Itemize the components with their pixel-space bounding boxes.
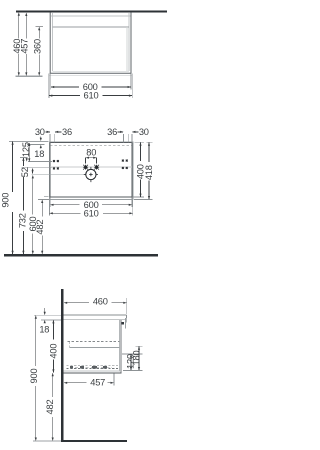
cabinet plan outline <box>50 143 132 198</box>
top dim ext lines right <box>123 134 125 143</box>
dim 360 top tick <box>36 26 43 28</box>
dim 457 side <box>64 382 87 384</box>
basin slab outline <box>49 142 132 200</box>
dim 600 plan-bottom <box>51 204 80 206</box>
inner bottom line <box>52 70 129 72</box>
svg-text:460: 460 <box>93 297 108 307</box>
svg-text:400: 400 <box>48 344 58 359</box>
hidden basin dashed <box>68 341 120 343</box>
dim 30 right <box>132 131 138 133</box>
dim 400 side <box>52 320 54 339</box>
door right gap line <box>126 27 128 71</box>
dim 460 side <box>64 302 89 304</box>
handle <box>122 322 124 325</box>
dim 400 plan <box>140 143 142 161</box>
floor line side <box>61 440 127 442</box>
inner light left line <box>51 13 53 71</box>
plan bottom ext lines <box>48 200 50 216</box>
svg-text:80: 80 <box>86 148 96 158</box>
ext lines below front view <box>48 74 50 98</box>
row ticks left <box>28 161 52 163</box>
dashed wall line <box>50 145 132 147</box>
dim 36 left <box>55 131 62 133</box>
dim 732 plan <box>20 156 28 158</box>
svg-text:30: 30 <box>35 127 45 137</box>
svg-text:900: 900 <box>29 369 39 384</box>
dim 180 side <box>138 347 140 370</box>
dim 482 side <box>52 373 54 397</box>
dim 460 side ext <box>126 298 128 314</box>
dashed-line tick <box>27 144 45 146</box>
right dim ticks plan <box>135 141 145 143</box>
inner light right line <box>128 13 130 71</box>
svg-text:36: 36 <box>107 127 117 137</box>
dim 418 plan <box>148 143 150 162</box>
dim 18 side <box>44 308 46 312</box>
plan reference tick at basin back level <box>9 140 49 142</box>
dim 482 plan <box>41 200 43 217</box>
interior shelf line <box>70 347 120 349</box>
tap fixing star left <box>83 164 89 170</box>
dim 457 ext <box>113 374 115 386</box>
dim 52 plan <box>26 157 28 158</box>
svg-text:900: 900 <box>1 193 11 208</box>
svg-text:360: 360 <box>32 39 42 54</box>
countertop front nose <box>125 315 127 321</box>
drain circle <box>86 169 96 179</box>
svg-text:18: 18 <box>34 149 44 159</box>
fixing hole marks left <box>53 160 59 169</box>
top dim ext lines left <box>49 134 51 143</box>
extra up arrow at row2 <box>31 168 33 171</box>
side ticks 18 <box>34 314 61 316</box>
svg-text:418: 418 <box>144 165 154 180</box>
svg-text:457: 457 <box>90 378 105 388</box>
svg-text:18: 18 <box>39 324 49 334</box>
dim 18 plan <box>40 137 42 139</box>
side right ticks <box>136 345 143 347</box>
dim 457 line <box>25 13 27 39</box>
countertop side top <box>63 314 126 316</box>
dim 125 plan <box>28 143 30 162</box>
door top edge <box>52 26 129 28</box>
dim 900 side <box>35 316 37 366</box>
svg-text:180: 180 <box>131 351 141 366</box>
box bottom small tick left <box>44 195 49 197</box>
dim 120 side <box>130 354 132 370</box>
svg-text:482: 482 <box>35 220 45 235</box>
svg-text:610: 610 <box>84 208 99 218</box>
cabinet box outline <box>50 12 131 73</box>
washbasin bottom reveal line <box>49 74 132 76</box>
cabinet top line side <box>63 319 125 321</box>
svg-text:482: 482 <box>45 400 55 415</box>
siphon hidden dashes <box>67 365 119 367</box>
svg-text:457: 457 <box>20 39 30 54</box>
dim 360 line <box>38 27 40 38</box>
drain centre reference line <box>32 174 86 176</box>
dim 460 line <box>18 13 20 39</box>
svg-text:36: 36 <box>62 127 72 137</box>
dim 610 plan-bottom <box>50 212 81 214</box>
dim 600 (front) line <box>51 86 79 88</box>
ground tick under front view <box>16 75 43 77</box>
svg-text:610: 610 <box>84 91 99 101</box>
countertop underside line <box>51 15 131 17</box>
basin apron line <box>125 318 127 329</box>
cabinet bottom side <box>63 372 121 374</box>
dim 610 (front) line <box>49 95 80 97</box>
dim 900 plan <box>12 142 14 192</box>
row2 reference line <box>50 166 132 168</box>
wall <box>61 289 63 441</box>
fixing hole marks right <box>122 160 128 169</box>
svg-text:52: 52 <box>20 167 30 177</box>
svg-text:732: 732 <box>18 213 28 228</box>
door front tick left <box>38 199 49 201</box>
floor bar (plan section) <box>4 254 158 256</box>
floor tick left side <box>33 440 61 442</box>
tap fixing star right <box>94 164 100 170</box>
hidden vertical dashed <box>69 342 71 349</box>
svg-text:125: 125 <box>21 142 31 157</box>
door front lines <box>119 320 121 372</box>
svg-text:30: 30 <box>139 127 149 137</box>
countertop bar <box>16 10 167 12</box>
dim 600 plan-left <box>32 175 34 214</box>
